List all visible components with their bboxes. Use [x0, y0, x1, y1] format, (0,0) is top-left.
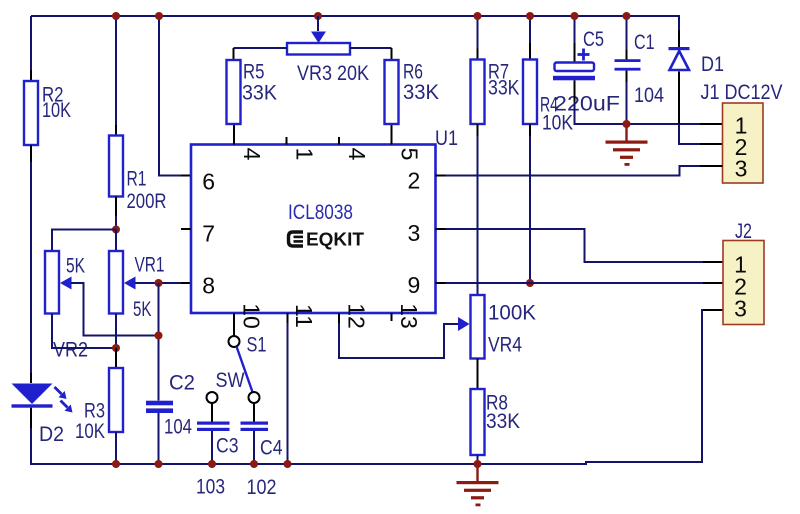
resistor R4 [523, 60, 537, 125]
svg-text:R5: R5 [243, 60, 265, 83]
potentiometer VR2 [45, 251, 59, 314]
wire: C5 bottom to ground line [575, 80, 627, 124]
svg-text:C4: C4 [260, 436, 283, 459]
wire: VR3 right to R6 [350, 48, 392, 60]
label ICL8038 [288, 201, 353, 224]
label R8 value [486, 391, 520, 433]
pin 9 number [408, 272, 421, 298]
svg-text:D2: D2 [39, 423, 64, 446]
svg-text:33K: 33K [242, 81, 277, 104]
resistor R5 [227, 60, 241, 124]
pin 13 number [396, 303, 422, 329]
capacitor C5 electrolytic [553, 49, 595, 81]
pin 4 stub top [233, 124, 235, 145]
wire: rail to VR3 wiper [317, 16, 319, 31]
pin 11 stub [287, 313, 289, 323]
wire: C2 bottom to rail [158, 413, 160, 464]
wire: wiper node down to C2 [158, 283, 160, 401]
svg-text:100K: 100K [488, 301, 536, 324]
wire: node to VR2 top [52, 230, 116, 252]
label U1 [435, 127, 458, 150]
label SW [216, 369, 245, 392]
svg-text:11: 11 [291, 304, 317, 328]
svg-text:10: 10 [239, 303, 265, 329]
label 220uF [554, 92, 620, 115]
wire: pin 12 to VR4 wiper [339, 323, 458, 358]
label C4 value [247, 436, 283, 499]
node: pin6 rail junction [155, 12, 163, 20]
node: C2 rail junction [155, 460, 163, 468]
wire: R2 bottom to LED D2 [30, 145, 32, 383]
node: C4 rail junction [250, 460, 258, 468]
node: ground junction [623, 120, 631, 128]
pin 4b stub top [338, 137, 340, 145]
wire: R1 bottom to node [115, 197, 117, 230]
svg-text:220uF: 220uF [554, 92, 620, 115]
svg-text:103: 103 [196, 475, 225, 498]
label C3 value [196, 434, 239, 498]
capacitor C2 [146, 401, 173, 413]
pin 5 stub top [391, 124, 393, 145]
pin 12 stub [338, 313, 340, 323]
label S1 [247, 333, 267, 356]
svg-text:200R: 200R [127, 190, 167, 213]
wire: +12V top rail [31, 15, 680, 17]
label D2 [39, 423, 64, 446]
wire: R4 bottom to pin9 net [529, 124, 531, 283]
node: R1 rail junction [112, 12, 120, 20]
wire: R7 column from rail [477, 16, 479, 60]
capacitor C1 [615, 59, 641, 70]
wire: C3 contact stub [211, 403, 213, 422]
wire: C1 bottom to ground node [626, 71, 628, 124]
svg-text:J1 DC12V: J1 DC12V [701, 81, 783, 104]
LED D2 [12, 384, 73, 413]
diode D1 [669, 47, 690, 70]
svg-text:R1: R1 [127, 167, 147, 190]
wire: C1 column from rail [626, 16, 628, 60]
svg-text:12: 12 [344, 303, 370, 329]
wire: LED bottom to ground rail [30, 408, 32, 465]
resistor R7 [471, 60, 485, 125]
svg-text:4: 4 [239, 148, 265, 161]
potentiometer VR1 [109, 251, 123, 314]
wire: bottom ground rail [30, 462, 702, 464]
svg-text:3: 3 [735, 156, 748, 182]
svg-text:D1: D1 [701, 53, 724, 76]
wire: R7 bottom to VR4 [477, 124, 479, 295]
logo EQKIT [289, 229, 365, 249]
label C5 value [583, 28, 604, 51]
wire: IC pin3 to J2 pin1 [436, 229, 724, 262]
label VR2 [53, 338, 88, 361]
wire: R1 column from rail [115, 16, 117, 136]
svg-text:3: 3 [408, 220, 421, 246]
svg-text:10K: 10K [42, 99, 71, 122]
label C1 value [634, 31, 664, 107]
ground symbol bottom [457, 464, 499, 506]
resistor R2 [24, 81, 38, 145]
svg-text:5K: 5K [66, 254, 85, 277]
node: R4 rail junction [526, 12, 534, 20]
svg-text:13: 13 [396, 303, 422, 329]
node: R7 rail junction [474, 12, 482, 20]
svg-text:7: 7 [202, 221, 215, 247]
wire: left column top (rail to R2) [30, 16, 32, 81]
svg-text:5: 5 [397, 148, 423, 161]
pin 7 stub [181, 228, 191, 230]
pin 10 number [239, 303, 265, 329]
pin 4b number [344, 148, 370, 161]
pin 11 number [291, 304, 317, 328]
VR1 wiper arrow [124, 277, 191, 290]
svg-text:2: 2 [408, 168, 421, 194]
node: C5 rail junction [571, 12, 579, 20]
svg-text:VR1: VR1 [135, 253, 165, 276]
svg-text:10K: 10K [75, 420, 105, 443]
capacitor C3 [197, 422, 230, 432]
wire: R8 bottom to rail [477, 455, 479, 464]
label R2 value [42, 83, 71, 122]
node: VR2 wiper tee [155, 332, 163, 340]
VR2 wiper arrow [60, 277, 159, 336]
svg-text:C2: C2 [169, 371, 195, 394]
svg-text:33K: 33K [488, 76, 520, 99]
resistor R3 [109, 368, 123, 432]
wire: C3 bottom to rail [211, 431, 213, 464]
svg-text:EQKIT: EQKIT [306, 229, 364, 249]
label VR2 value 5K [66, 254, 85, 277]
svg-text:3: 3 [734, 295, 747, 321]
potentiometer VR4 [471, 295, 485, 359]
label R1 value [127, 167, 167, 213]
op-amp U1 IC body ICL8038 [191, 145, 436, 314]
node: VR1 wiper / pin8 junction [155, 279, 163, 287]
node: R3 top junction [112, 344, 120, 352]
pin 1 number [292, 148, 318, 161]
svg-text:S1: S1 [247, 333, 267, 356]
connector J2 [723, 241, 764, 325]
ground symbol top [606, 124, 648, 166]
svg-text:U1: U1 [435, 127, 458, 150]
resistor R6 [385, 60, 399, 124]
svg-text:C5: C5 [583, 28, 604, 51]
VR4 wiper arrow [458, 317, 470, 331]
pin 4 number [239, 148, 265, 161]
potentiometer VR3 [287, 43, 350, 55]
wire: R3 bottom to rail [115, 432, 117, 464]
wire: ground line to J1 pin1 [627, 123, 723, 125]
svg-text:VR4: VR4 [488, 333, 522, 356]
pin 6 number [202, 168, 215, 194]
wire: VR1 bottom to R3 node [115, 314, 117, 349]
node: R1/VR1/VR2 junction [112, 226, 120, 234]
connector J1 [723, 103, 764, 183]
svg-text:J2: J2 [735, 220, 752, 243]
wire: VR2 bottom to R3 node [52, 314, 116, 349]
wire: C5 column from rail [574, 16, 576, 63]
svg-text:104: 104 [634, 84, 664, 107]
svg-text:C3: C3 [216, 434, 239, 457]
label VR1 value [133, 253, 165, 321]
svg-text:102: 102 [247, 476, 277, 499]
svg-text:6: 6 [202, 168, 215, 194]
pin 2 number [408, 168, 421, 194]
label C2 value [164, 371, 195, 438]
svg-text:33K: 33K [403, 81, 439, 104]
wire: VR3 left to R5 [234, 48, 288, 60]
wire: node to R3 [115, 348, 117, 368]
resistor R8 [471, 389, 485, 455]
label VR4 value [488, 301, 536, 356]
pin 5 number [397, 148, 423, 161]
VR3 wiper arrow [311, 32, 326, 44]
wire: R4 column from rail [529, 16, 531, 60]
svg-text:ICL8038: ICL8038 [288, 201, 353, 224]
label VR3 value [297, 62, 369, 85]
svg-text:104: 104 [164, 415, 192, 438]
svg-text:9: 9 [408, 272, 421, 298]
resistor R1 [109, 136, 123, 197]
node: R8 rail junction [474, 460, 482, 468]
node: VR3 top rail junction [314, 12, 322, 20]
wire: J2 pin3 riser [702, 310, 723, 463]
node: C1 rail junction [623, 12, 631, 20]
wire: J1 pin3 to IC pin2 [436, 166, 723, 176]
node: R3 rail junction [112, 460, 120, 468]
node: C3 rail junction [208, 460, 216, 468]
svg-text:4: 4 [344, 148, 370, 161]
svg-text:C1: C1 [634, 31, 655, 54]
label R3 value [75, 399, 105, 443]
label R5 value [242, 60, 277, 104]
svg-text:VR2: VR2 [53, 338, 88, 361]
pin 7 number [202, 221, 215, 247]
wire: pin6 wire from rail [159, 16, 191, 176]
wire: C4 bottom to rail [253, 431, 255, 464]
wire: VR4 bottom to R8 [477, 359, 479, 390]
capacitor C4 [241, 422, 269, 432]
wire: node to VR1 top [115, 230, 117, 252]
wire: pin 11 to rail [287, 323, 289, 464]
pin 13 stub [391, 313, 393, 321]
label R6 value [403, 61, 439, 105]
label J2 [735, 220, 752, 243]
svg-text:VR3 20K: VR3 20K [297, 62, 369, 85]
pin 3 number [408, 220, 421, 246]
switch S1 [207, 336, 260, 403]
svg-text:SW: SW [216, 369, 245, 392]
label D1 [701, 53, 724, 76]
pin 12 number [344, 303, 370, 329]
wire: D1 column from rail [678, 16, 680, 48]
wire: C4 contact stub [253, 403, 255, 422]
pin 8 number [202, 272, 215, 298]
pin 1 stub top [286, 137, 288, 145]
svg-text:8: 8 [202, 272, 215, 298]
node: pin11 rail junction [284, 460, 292, 468]
svg-text:1: 1 [292, 148, 318, 161]
svg-text:5K: 5K [133, 298, 152, 321]
label R7 value [488, 60, 520, 99]
wire: IC pin9 to J2 pin2 [436, 282, 724, 284]
label R4 value [540, 93, 573, 134]
svg-text:33K: 33K [486, 410, 520, 433]
wire: D1 anode down to J1 pin2 [679, 72, 723, 145]
node: R4 pin9 junction [526, 279, 534, 287]
label J1 DC12V [701, 81, 783, 104]
pin 10 stub [233, 313, 235, 336]
